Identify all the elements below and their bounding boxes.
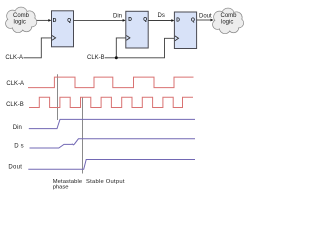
- svg-text:Stable Output: Stable Output: [86, 179, 125, 185]
- svg-text:Q: Q: [67, 18, 71, 24]
- Dout waveform: [28, 160, 195, 170]
- svg-text:D: D: [53, 18, 57, 24]
- annotation line 1 (metastable start): [57, 74, 59, 120]
- svg-text:CLK-B: CLK-B: [87, 55, 105, 61]
- flip-flop FF3: [174, 12, 196, 49]
- svg-text:logic: logic: [221, 20, 233, 26]
- CLK-A waveform: [28, 77, 194, 88]
- svg-text:D: D: [128, 17, 132, 23]
- Din wire FF1.Q to FF2.D: [74, 14, 126, 22]
- junction dot: [115, 56, 118, 59]
- svg-text:Din: Din: [113, 14, 122, 20]
- svg-text:D: D: [176, 18, 180, 24]
- svg-text:Din: Din: [13, 125, 22, 131]
- CLK-B wire: [105, 38, 175, 58]
- svg-text:logic: logic: [14, 20, 26, 26]
- Ds waveform (metastable): [30, 139, 196, 148]
- svg-text:CLK-B: CLK-B: [6, 102, 24, 108]
- svg-text:CLK-A: CLK-A: [5, 55, 23, 61]
- Din waveform: [29, 119, 195, 128]
- flip-flop FF1: [52, 11, 74, 47]
- wire cloud to FF1 D with arrow: [37, 19, 52, 22]
- svg-text:Q: Q: [143, 17, 147, 23]
- CLK-A wire: [24, 38, 52, 58]
- flip-flop FF2: [126, 11, 148, 48]
- comb logic cloud right: [213, 8, 244, 33]
- svg-text:Comb: Comb: [221, 13, 238, 19]
- svg-text:Dout: Dout: [8, 164, 22, 170]
- Ds wire FF2.Q to FF3.D: [148, 13, 174, 22]
- svg-text:Ds: Ds: [158, 13, 165, 19]
- svg-text:phase: phase: [53, 185, 69, 191]
- svg-text:Comb: Comb: [13, 13, 30, 19]
- svg-text:s: s: [21, 144, 24, 150]
- svg-text:D: D: [14, 144, 19, 150]
- svg-text:Dout: Dout: [199, 13, 212, 19]
- CLK-B branch to FF2: [116, 38, 126, 58]
- CLK-B waveform: [29, 97, 193, 107]
- annotation line 2 (stable output): [82, 97, 84, 174]
- comb logic cloud left: [6, 7, 37, 32]
- Dout wire FF3.Q to cloud with arrow: [197, 13, 214, 21]
- svg-text:CLK-A: CLK-A: [6, 81, 24, 87]
- svg-text:Q: Q: [191, 18, 195, 24]
